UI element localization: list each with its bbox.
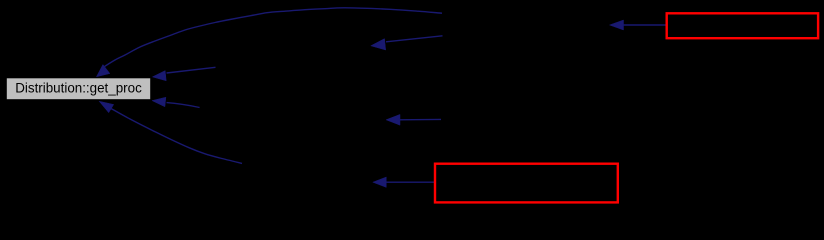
- arrowhead of edge E3: [371, 39, 386, 50]
- svg-text:Distribution::get_proc: Distribution::get_proc: [15, 81, 142, 96]
- edge E2: from top-right red node leftwards, arrow at (609,25): [622, 24, 666, 26]
- node Distribution::get_proc (current node, grey filled): [6, 78, 151, 100]
- edge E4: slanted edge into top-right corner of gray node: [167, 67, 216, 73]
- edge E8: horizontal edge from bottom red node, arrow at (373,182): [385, 181, 434, 183]
- edge E3: short slanted edge, arrow at (371,46): [386, 36, 443, 42]
- edge E5: slanted edge into bottom-right corner of gray node: [167, 103, 200, 108]
- arrowhead of edge E8: [373, 177, 387, 187]
- truncated caller node (red box, top right): [667, 13, 818, 38]
- arrowhead of edge E4: [152, 71, 166, 81]
- arrowhead of edge E2: [610, 20, 624, 30]
- arrowhead of edge E6: [386, 114, 400, 125]
- arrowhead of edge E7: [99, 101, 114, 113]
- arrowhead of edge E5: [152, 97, 166, 107]
- arrowhead of edge E1: [96, 65, 110, 77]
- edge E1: long curved edge from hidden caller node (442,13) into top of Distribution::get_proc: [105, 8, 443, 67]
- edge E7: curved edge from hidden node (241,164) into bottom of Distribution::get_proc: [111, 108, 243, 163]
- edge E6: horizontal edge, arrow at (386,120): [399, 118, 441, 120]
- truncated caller node (red box, bottom middle): [435, 164, 618, 203]
